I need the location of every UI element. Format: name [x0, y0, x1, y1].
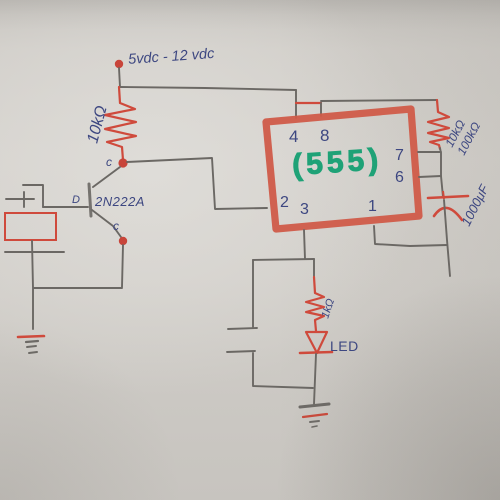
capacitor C1 input cross	[6, 192, 34, 207]
value label 10k	[84, 104, 110, 145]
wire junction horizontal	[253, 259, 314, 260]
svg-text:LED: LED	[330, 338, 359, 354]
value label (555)	[291, 143, 383, 182]
wire pin 6 link	[419, 176, 441, 177]
svg-text:2: 2	[280, 194, 289, 211]
svg-text:1kΩ: 1kΩ	[319, 297, 337, 320]
svg-text:6: 6	[395, 169, 404, 186]
svg-text:(555): (555)	[291, 143, 383, 182]
pin label c emitter	[113, 219, 119, 233]
wire base lead	[43, 206, 88, 208]
resistor R1 10k left	[105, 87, 136, 160]
svg-text:1: 1	[368, 198, 377, 215]
wire to R3	[313, 259, 315, 277]
pin 7	[395, 147, 404, 164]
resistor R3 1k	[306, 277, 324, 331]
capacitor C2 1000uF	[428, 191, 468, 220]
wire rail to right resistor	[321, 100, 437, 101]
ground GND2	[300, 404, 329, 427]
op-amp U1 555 box	[266, 109, 419, 229]
svg-text:3: 3	[300, 201, 309, 218]
pin 6	[395, 169, 404, 186]
wire input step	[23, 185, 43, 207]
wire left horizontal cross	[5, 251, 64, 253]
pin label c collector	[106, 155, 112, 169]
wire left branch down	[252, 260, 254, 327]
value label LED	[330, 338, 359, 354]
svg-text:7: 7	[395, 147, 404, 164]
transistor Q1 2N222A	[89, 167, 121, 237]
resistor R2 10k-100k right	[428, 100, 449, 149]
svg-text:2N222A: 2N222A	[94, 194, 145, 209]
wire left vertical to ground	[32, 241, 33, 329]
svg-text:c: c	[106, 155, 112, 169]
pin 4	[289, 127, 298, 146]
pin 1	[368, 198, 377, 215]
wire drop to pin 8	[320, 103, 322, 116]
node collector junction dot	[118, 158, 127, 167]
pin 3	[300, 201, 309, 218]
wire pin 1 down and right	[374, 226, 447, 246]
wire emitter to left vertical	[34, 287, 122, 289]
svg-text:5vdc - 12 vdc: 5vdc - 12 vdc	[128, 46, 216, 68]
wire red link pin4-pin8	[296, 102, 321, 104]
node VCC junction dot	[115, 60, 123, 68]
component X1 red box input	[5, 213, 56, 240]
value label 10k 100k	[442, 118, 483, 158]
svg-text:D: D	[72, 194, 80, 206]
value label 2N222A	[94, 194, 145, 209]
node emitter junction dot	[119, 237, 127, 245]
capacitor C3	[227, 328, 257, 352]
wire pin 3 down	[304, 230, 305, 259]
value label 1000uF	[458, 181, 492, 228]
svg-text:4: 4	[289, 127, 298, 146]
wire cap through	[444, 200, 450, 276]
svg-text:10kΩ: 10kΩ	[84, 104, 110, 145]
svg-text:8: 8	[320, 126, 329, 145]
wire LED to ground	[314, 354, 316, 404]
value label 1k	[319, 297, 337, 320]
svg-text:c: c	[113, 219, 119, 233]
wire top rail to pin4 drop	[120, 87, 296, 90]
wire emitter down	[122, 245, 123, 287]
pin 2	[280, 194, 289, 211]
wire below C3	[253, 353, 313, 388]
wire drop to pin 4	[295, 90, 297, 118]
wire collector to pin 2	[127, 158, 267, 209]
ground GND1 left	[18, 336, 44, 353]
pin label B base	[72, 194, 80, 206]
node VCC supply label	[128, 46, 216, 68]
diode LED D1	[300, 332, 332, 353]
wire resistor to pin 7	[418, 148, 443, 197]
pin 8	[320, 126, 329, 145]
wire VCC dot to rail	[119, 68, 120, 87]
svg-text:1000μF: 1000μF	[458, 181, 492, 228]
